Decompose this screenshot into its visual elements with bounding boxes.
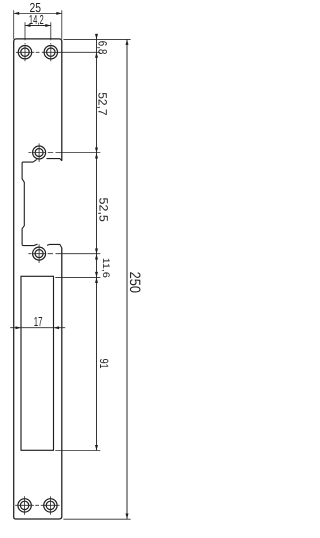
- svg-text:91: 91: [97, 359, 111, 369]
- svg-text:52,7: 52,7: [95, 92, 109, 116]
- svg-text:6,8: 6,8: [95, 41, 109, 55]
- svg-text:250: 250: [126, 272, 143, 293]
- svg-text:52,5: 52,5: [97, 198, 111, 223]
- svg-text:14,2: 14,2: [29, 12, 44, 27]
- svg-text:11,6: 11,6: [100, 258, 111, 278]
- svg-text:17: 17: [34, 314, 43, 329]
